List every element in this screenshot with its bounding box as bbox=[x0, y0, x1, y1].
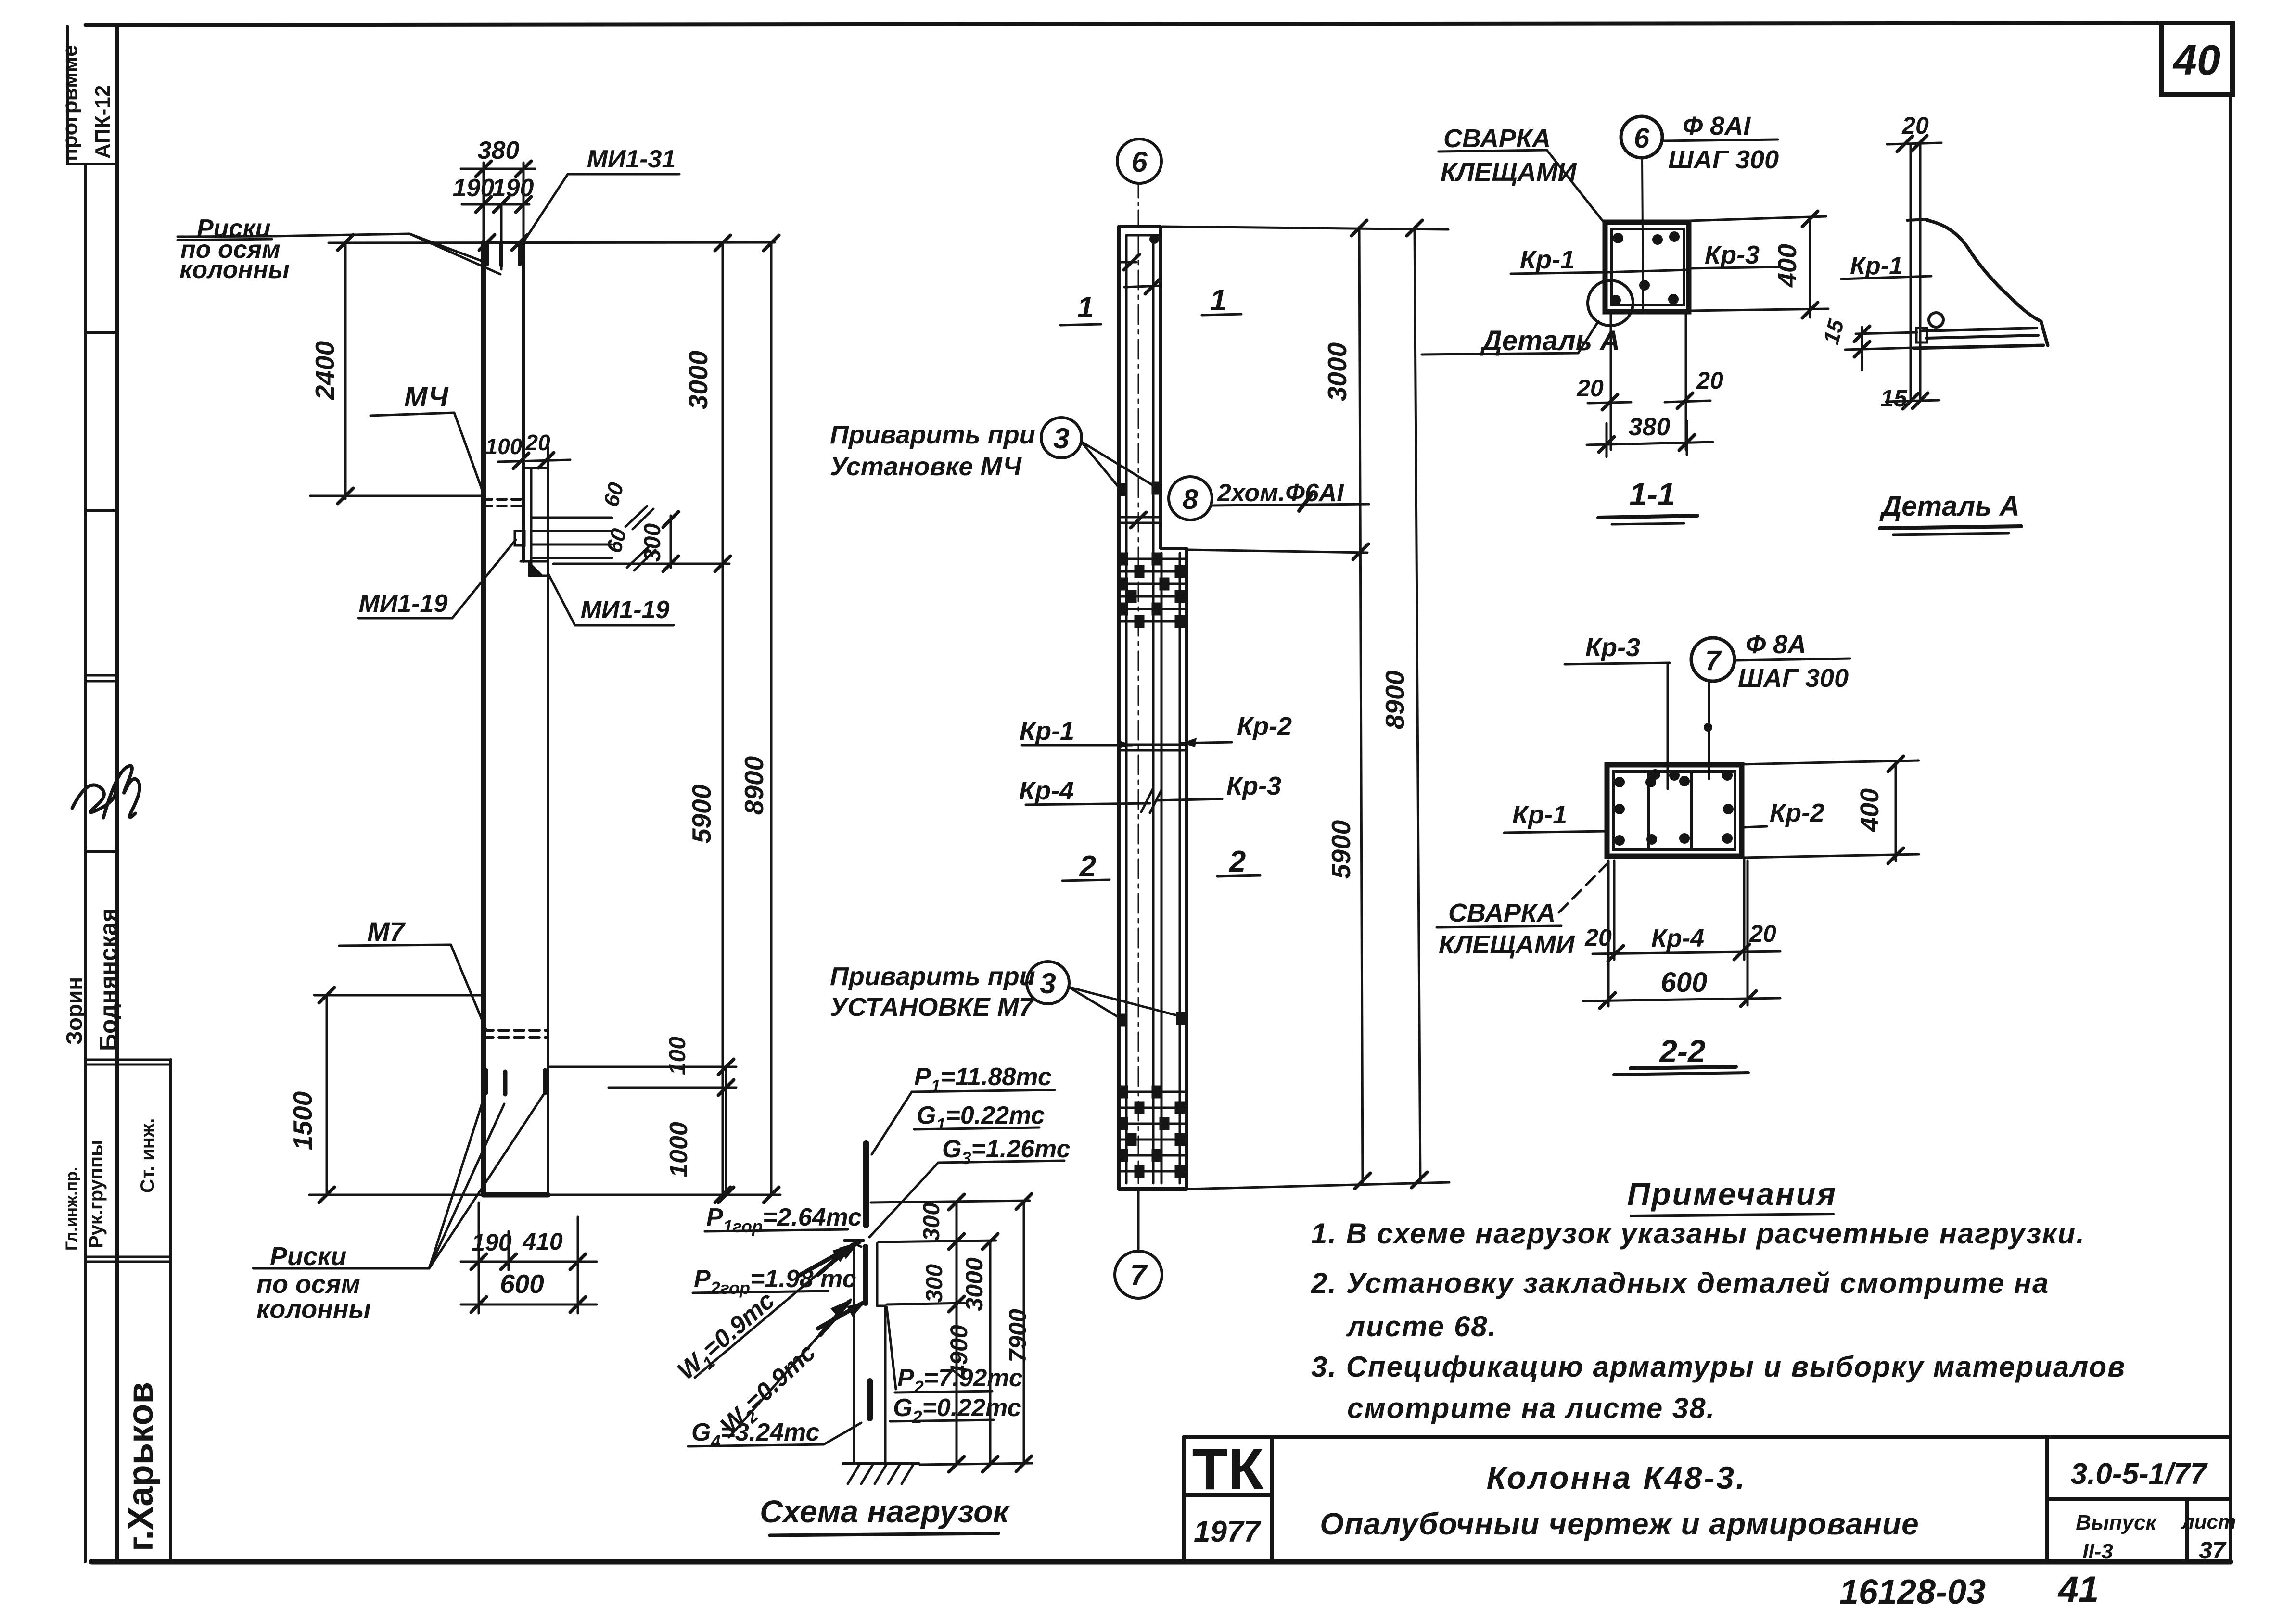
svg-text:Кр-2: Кр-2 bbox=[1770, 798, 1824, 827]
svg-text:листе 68.: листе 68. bbox=[1346, 1310, 1497, 1342]
svg-text:3000: 3000 bbox=[1322, 342, 1352, 401]
svg-text:7: 7 bbox=[1705, 645, 1722, 676]
svg-text:3. Спецификацию арматуры и выб: 3. Спецификацию арматуры и выборку матер… bbox=[1311, 1351, 2126, 1383]
svg-text:ШАГ 300: ШАГ 300 bbox=[1668, 145, 1779, 174]
svg-text:2400: 2400 bbox=[310, 341, 340, 400]
svg-text:Приварить при: Приварить при bbox=[830, 420, 1035, 449]
svg-text:20: 20 bbox=[1901, 112, 1929, 139]
svg-text:20: 20 bbox=[1696, 367, 1723, 394]
svg-text:Кр-3: Кр-3 bbox=[1226, 772, 1281, 800]
svg-text:Кр-3: Кр-3 bbox=[1585, 633, 1640, 662]
svg-text:300: 300 bbox=[922, 1264, 947, 1303]
svg-text:6: 6 bbox=[1131, 146, 1148, 178]
svg-text:6: 6 bbox=[1634, 123, 1650, 154]
svg-text:Деталь А: Деталь А bbox=[1480, 325, 1620, 356]
svg-text:100: 100 bbox=[665, 1037, 690, 1075]
svg-text:Колонна К48-3.: Колонна К48-3. bbox=[1487, 1460, 1747, 1495]
svg-text:УСТАНОВКЕ М7: УСТАНОВКЕ М7 bbox=[830, 993, 1035, 1022]
svg-text:190: 190 bbox=[453, 174, 495, 202]
svg-text:600: 600 bbox=[1661, 967, 1708, 998]
svg-text:3: 3 bbox=[1040, 967, 1056, 1000]
svg-text:7900: 7900 bbox=[1004, 1309, 1031, 1362]
svg-text:Ст. инж.: Ст. инж. bbox=[137, 1118, 158, 1193]
svg-text:1977: 1977 bbox=[1194, 1515, 1261, 1548]
svg-text:Кр-1: Кр-1 bbox=[1512, 800, 1567, 829]
svg-text:1: 1 bbox=[1210, 284, 1226, 317]
svg-text:смотрите на листе 38.: смотрите на листе 38. bbox=[1347, 1392, 1715, 1424]
svg-text:колонны: колонны bbox=[179, 256, 290, 284]
svg-text:4900: 4900 bbox=[945, 1325, 972, 1379]
svg-text:АПК-12: АПК-12 bbox=[91, 85, 115, 159]
svg-text:МИ1-19: МИ1-19 bbox=[581, 596, 670, 624]
svg-text:ТК: ТК bbox=[1192, 1436, 1264, 1502]
svg-text:5900: 5900 bbox=[687, 784, 716, 843]
svg-text:600: 600 bbox=[500, 1269, 544, 1299]
svg-text:Примечания: Примечания bbox=[1627, 1176, 1837, 1212]
svg-text:G2=0.22тс: G2=0.22тс bbox=[893, 1394, 1021, 1427]
svg-text:2: 2 bbox=[1229, 845, 1246, 878]
svg-text:100: 100 bbox=[485, 434, 523, 459]
svg-text:20: 20 bbox=[1749, 920, 1776, 947]
svg-text:Ф 8А: Ф 8А bbox=[1746, 630, 1806, 659]
svg-text:8900: 8900 bbox=[1380, 670, 1410, 729]
svg-text:37: 37 bbox=[2199, 1537, 2227, 1564]
svg-text:Приварить при: Приварить при bbox=[830, 962, 1035, 991]
svg-text:Кр-4: Кр-4 bbox=[1019, 776, 1074, 805]
svg-text:8: 8 bbox=[1183, 484, 1199, 515]
svg-text:15: 15 bbox=[1880, 385, 1908, 412]
svg-text:Кр-1: Кр-1 bbox=[1520, 245, 1575, 274]
svg-text:Ф 8АI: Ф 8АI bbox=[1683, 112, 1751, 140]
svg-text:Боднянская: Боднянская bbox=[95, 908, 122, 1051]
svg-text:2-2: 2-2 bbox=[1658, 1033, 1706, 1069]
svg-text:3000: 3000 bbox=[961, 1257, 988, 1311]
svg-text:МЧ: МЧ bbox=[404, 381, 449, 413]
svg-text:380: 380 bbox=[478, 137, 520, 165]
svg-text:400: 400 bbox=[1773, 244, 1802, 288]
svg-text:СВАРКА: СВАРКА bbox=[1448, 899, 1556, 927]
svg-text:7: 7 bbox=[1130, 1259, 1148, 1292]
svg-text:Рук.группы: Рук.группы bbox=[86, 1140, 107, 1248]
svg-text:2. Установку закладных деталей: 2. Установку закладных деталей смотрите … bbox=[1311, 1267, 2049, 1299]
svg-text:380: 380 bbox=[1629, 413, 1671, 441]
svg-text:190: 190 bbox=[492, 174, 534, 202]
svg-text:20: 20 bbox=[1584, 924, 1612, 951]
svg-text:М7: М7 bbox=[367, 916, 406, 947]
svg-text:Опалубочныи чертеж и армирован: Опалубочныи чертеж и армирование bbox=[1320, 1507, 1919, 1541]
svg-text:Деталь А: Деталь А bbox=[1879, 491, 2019, 522]
svg-text:40: 40 bbox=[2172, 36, 2220, 84]
svg-text:г.Харьков: г.Харьков bbox=[120, 1382, 160, 1551]
svg-text:Кр-3: Кр-3 bbox=[1705, 241, 1760, 269]
svg-text:Кр-4: Кр-4 bbox=[1651, 924, 1704, 952]
svg-text:II-3: II-3 bbox=[2082, 1540, 2113, 1563]
svg-text:41: 41 bbox=[2057, 1569, 2099, 1608]
svg-text:G3=1.26тс: G3=1.26тс bbox=[942, 1135, 1071, 1168]
svg-text:МИ1-31: МИ1-31 bbox=[587, 145, 676, 173]
svg-text:G4=3.24тс: G4=3.24тс bbox=[691, 1418, 820, 1451]
svg-text:Гл.инж.пр.: Гл.инж.пр. bbox=[63, 1167, 81, 1251]
svg-text:Кр-2: Кр-2 bbox=[1237, 712, 1292, 741]
svg-text:410: 410 bbox=[522, 1228, 563, 1255]
svg-text:3000: 3000 bbox=[683, 350, 713, 409]
svg-text:2: 2 bbox=[1079, 850, 1096, 883]
svg-text:1000: 1000 bbox=[665, 1122, 693, 1178]
svg-text:колонны: колонны bbox=[256, 1295, 371, 1324]
svg-text:Зорин: Зорин bbox=[62, 977, 87, 1045]
svg-text:1: 1 bbox=[1077, 291, 1094, 324]
svg-text:МИ1-19: МИ1-19 bbox=[359, 590, 448, 618]
svg-text:Кр-1: Кр-1 bbox=[1850, 252, 1903, 280]
svg-text:16128-03: 16128-03 bbox=[1839, 1573, 1986, 1608]
svg-text:Установке МЧ: Установке МЧ bbox=[830, 452, 1022, 481]
svg-text:ШАГ 300: ШАГ 300 bbox=[1738, 664, 1849, 693]
svg-text:КЛЕЩАМИ: КЛЕЩАМИ bbox=[1439, 930, 1575, 959]
svg-text:190: 190 bbox=[472, 1229, 512, 1256]
svg-text:5900: 5900 bbox=[1326, 820, 1356, 879]
svg-text:Риски: Риски bbox=[270, 1242, 346, 1271]
svg-text:1. В схеме нагрузок указаны ра: 1. В схеме нагрузок указаны расчетные на… bbox=[1311, 1217, 2085, 1250]
svg-text:Выпуск: Выпуск bbox=[2076, 1511, 2157, 1534]
svg-text:300: 300 bbox=[640, 523, 665, 562]
svg-text:КЛЕЩАМИ: КЛЕЩАМИ bbox=[1441, 158, 1577, 187]
svg-text:3.0-5-1/77: 3.0-5-1/77 bbox=[2071, 1457, 2208, 1491]
svg-text:20: 20 bbox=[525, 430, 550, 455]
svg-text:3: 3 bbox=[1053, 422, 1069, 455]
svg-text:1-1: 1-1 bbox=[1629, 476, 1675, 512]
svg-text:прогрвмме: прогрвмме bbox=[58, 45, 82, 161]
svg-text:8900: 8900 bbox=[739, 756, 769, 815]
svg-text:по осям: по осям bbox=[256, 1270, 360, 1299]
svg-text:300: 300 bbox=[919, 1203, 944, 1241]
svg-text:лист: лист bbox=[2181, 1510, 2236, 1533]
svg-text:1500: 1500 bbox=[288, 1091, 318, 1150]
svg-text:20: 20 bbox=[1576, 375, 1604, 402]
svg-text:G1=0.22тс: G1=0.22тс bbox=[917, 1102, 1045, 1134]
svg-text:Кр-1: Кр-1 bbox=[1020, 717, 1074, 746]
svg-text:Схема нагрузок: Схема нагрузок bbox=[760, 1494, 1010, 1529]
svg-text:400: 400 bbox=[1855, 788, 1884, 832]
svg-text:СВАРКА: СВАРКА bbox=[1443, 124, 1551, 153]
svg-text:2хом.Ф6АI: 2хом.Ф6АI bbox=[1217, 479, 1344, 507]
